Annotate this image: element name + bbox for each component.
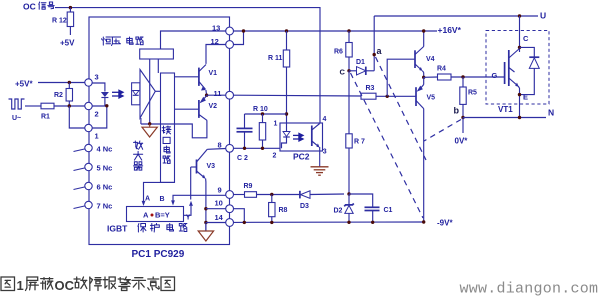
pin 11 label: [214, 89, 222, 98]
dashed fault path b down-left: [424, 120, 461, 142]
PC2 pin number 1: [274, 121, 278, 128]
junction -9V node: [422, 220, 425, 223]
diode D3: [300, 191, 344, 210]
svg-text:R4: R4: [437, 66, 446, 73]
junction R8 top: [270, 193, 273, 196]
wire pin12 tie-up: [234, 31, 244, 45]
wire pin9 net to input B: [160, 195, 226, 205]
pin 14 label: [215, 213, 224, 222]
dashed fault path C to -9V: [351, 73, 424, 218]
PC2 pin number 2: [273, 153, 277, 160]
svg-text:1: 1: [274, 121, 278, 128]
label PC2: [293, 152, 310, 162]
svg-text:1: 1: [17, 278, 24, 293]
block constant-voltage circuit box (恒压电路): [140, 49, 174, 59]
svg-text:R 12: R 12: [52, 18, 67, 25]
svg-text:IGBT: IGBT: [107, 224, 128, 234]
svg-text:+16V*: +16V*: [438, 25, 462, 35]
svg-text:6 Nc: 6 Nc: [97, 183, 113, 192]
junction R8 bottom: [270, 221, 273, 224]
svg-text:R9: R9: [244, 183, 253, 190]
svg-text:PC2: PC2: [293, 152, 310, 162]
junction +5V*/R2: [68, 81, 71, 84]
resistor R9: [234, 183, 257, 197]
IGBT gate label G: [492, 71, 498, 80]
wire R11 bottom feed to PC2 pin1: [286, 114, 288, 123]
svg-text:V5: V5: [427, 95, 436, 102]
junction R1/R2/pin1 branch: [68, 104, 71, 107]
power label +16V*: [438, 25, 462, 35]
junction amp output node: [148, 122, 151, 125]
zener diode D2: [334, 194, 354, 222]
junction R5 top: [461, 75, 464, 78]
wire D3 to C1 corner: [349, 194, 373, 207]
wire pin12 to V1 collector: [206, 45, 226, 64]
wire collector drop from U rail: [519, 16, 521, 52]
svg-text:D3: D3: [300, 203, 309, 210]
photodiode box: [132, 83, 140, 105]
wire R3 to V5 base: [376, 95, 416, 97]
wire node-a drop (U rail to D1): [373, 16, 375, 71]
svg-text:Y: Y: [186, 215, 191, 222]
pin 8 label: [218, 141, 222, 150]
IGBT collector label C: [523, 34, 529, 43]
net label OC signal (OC信号): [23, 2, 54, 12]
wire emitter junction to pin11: [207, 94, 226, 96]
svg-text:V3: V3: [207, 163, 216, 170]
IC PC1 PC929 outline box: [89, 17, 230, 245]
freewheel diode across VT1: [520, 47, 540, 94]
wire pin8 net (V3 collector to PC2 pin2): [234, 147, 280, 149]
svg-text:R3: R3: [366, 85, 375, 92]
wire logic output Y up-arrow: [184, 201, 193, 222]
svg-text:R2: R2: [54, 92, 63, 99]
svg-text:V2: V2: [209, 103, 218, 110]
svg-text:3: 3: [323, 149, 327, 156]
svg-text:G: G: [492, 71, 498, 80]
ground symbol (hollow triangle) PC1 common: [198, 223, 213, 242]
svg-text:C: C: [340, 68, 346, 77]
svg-text:R1: R1: [41, 114, 50, 121]
node b label: [454, 106, 460, 116]
svg-text:E: E: [523, 93, 528, 102]
svg-text:3: 3: [95, 73, 99, 82]
svg-text:1: 1: [95, 132, 99, 141]
svg-text:B: B: [160, 196, 165, 203]
label interface circuit (接口电路): [162, 126, 171, 163]
junction pin12 tie: [242, 29, 245, 32]
wire -9V rail: [234, 221, 424, 223]
wire node b to N: [463, 117, 546, 119]
IGBT emitter label E: [523, 93, 528, 102]
op-amp U (amplifier triangle): [140, 70, 155, 119]
svg-text:+5V*: +5V*: [15, 80, 33, 89]
junction R10 top: [261, 112, 264, 115]
resistor R11: [268, 31, 290, 114]
pin 1 label: [95, 132, 99, 141]
svg-text:13: 13: [212, 24, 220, 33]
wire V3 emitter to ground rail: [205, 182, 207, 231]
svg-text:4: 4: [323, 116, 327, 123]
wire +5V* to pin3: [38, 82, 85, 84]
junction node b: [461, 116, 464, 119]
junction R3/base rail: [386, 95, 389, 98]
block logic gate A*B=Y box: [127, 207, 184, 222]
wire const-box to interface box: [157, 59, 159, 73]
junction R6 top: [347, 29, 350, 32]
wire +16V rail (pins13/12 to V4 collector): [234, 30, 438, 32]
capacitor C2: [237, 114, 253, 162]
junction ground line / pin14 tap: [204, 221, 207, 224]
pin 10 label: [215, 199, 223, 208]
junction LED cathode on pin2 net: [105, 104, 108, 107]
wire pin11 to R3: [234, 94, 362, 97]
PC1 internal LED (input opto diode): [92, 83, 109, 106]
svg-text:0V*: 0V*: [455, 137, 469, 146]
junction D2 bottom: [347, 221, 350, 224]
label VT1: [498, 105, 513, 114]
figure caption (图1 屏蔽OC故障报警示意图): [1, 277, 175, 293]
dashed fault path a down: [376, 57, 427, 160]
resistor R10: [253, 106, 268, 148]
junction node a: [373, 53, 376, 56]
resistor R7: [346, 71, 365, 194]
junction node C: [347, 69, 350, 72]
svg-text:U~: U~: [12, 115, 21, 122]
svg-text:U: U: [540, 11, 546, 21]
wire U-phase rail: [374, 15, 538, 17]
junction emitter/diode bottom: [518, 93, 521, 96]
svg-text:A: A: [143, 211, 149, 220]
svg-text:8: 8: [218, 141, 222, 150]
svg-text:C 2: C 2: [237, 155, 248, 162]
watermark www.diangon.com: [460, 281, 599, 298]
optocoupler PC2 box: [280, 123, 323, 151]
power label -9V*: [437, 219, 453, 228]
svg-text:b: b: [454, 106, 460, 116]
transistor V4 (NPN driver): [415, 31, 435, 77]
svg-text:OC: OC: [55, 278, 75, 293]
resistor R6: [334, 31, 352, 71]
junction +16V / V4 collector: [422, 29, 425, 32]
pin 2 label: [95, 110, 99, 119]
pulse source symbol U~: [9, 99, 25, 122]
IGBT VT1 symbol: [505, 49, 520, 118]
junction C1 bottom: [371, 221, 374, 224]
wire OC signal rail to PC2 pin4 drop: [55, 8, 320, 123]
diode D1: [349, 59, 374, 75]
resistor R12: [52, 8, 74, 35]
node a label: [377, 46, 383, 56]
ground symbol (hollow triangle) below amplifier: [142, 124, 157, 137]
label constant-voltage (恒压电路): [102, 37, 144, 46]
wire R4 to IGBT gate: [451, 76, 505, 78]
junction U rail / collector: [518, 14, 521, 17]
svg-text:R 11: R 11: [268, 55, 283, 62]
junction R11 top: [285, 29, 288, 32]
power label 0V*: [455, 137, 469, 146]
wire base rail up to V4 base: [387, 59, 415, 96]
wire V4 emitter / R4 node: [422, 76, 425, 79]
transistor V2 (PNP): [175, 95, 218, 120]
junction pin10 elbow: [243, 221, 246, 224]
junction PC2 pin1 node: [285, 112, 288, 115]
resistor R3: [361, 85, 376, 99]
svg-text:4 Nc: 4 Nc: [97, 145, 113, 154]
wire amp bottom to V2 collector zigzag: [141, 118, 207, 138]
PC2 light arrows: [293, 133, 303, 141]
power label +5V*: [15, 80, 33, 89]
wire pin13 to constant-voltage box: [161, 31, 226, 49]
resistor R8: [269, 195, 288, 223]
svg-text:2: 2: [95, 110, 99, 119]
label amplifier (放大器): [134, 141, 143, 170]
wire pin14 to ground line: [206, 222, 226, 224]
wire pin2-pin1 right bracket: [92, 106, 107, 128]
svg-text:14: 14: [215, 213, 224, 222]
wire pulse to R1: [25, 105, 41, 107]
label IGBT protection circuit (IGBT保护电路): [107, 224, 187, 234]
svg-text:R 10: R 10: [253, 106, 268, 113]
svg-text:10: 10: [215, 199, 223, 208]
transistor V5 (PNP driver): [416, 77, 435, 222]
resistor R5: [460, 77, 477, 118]
PC2 pin number 3: [323, 149, 327, 156]
svg-text:7 Nc: 7 Nc: [97, 202, 113, 211]
junction R10 bottom: [261, 147, 264, 150]
resistor R2: [54, 83, 73, 107]
junction emitter on N rail: [518, 116, 521, 119]
junction OC/R12: [69, 6, 72, 9]
wire R9 to D3: [257, 194, 301, 196]
svg-text:-9V*: -9V*: [437, 219, 453, 228]
power label +5V (below R12): [60, 39, 75, 48]
svg-text:PC1 PC929: PC1 PC929: [132, 249, 185, 260]
node C label: [340, 68, 346, 77]
wire amp apex to interface box: [155, 90, 160, 92]
PC2 LED: [282, 123, 291, 148]
svg-text:www.diangon.com: www.diangon.com: [460, 281, 599, 298]
svg-text:R 7: R 7: [354, 139, 365, 146]
svg-text:R8: R8: [279, 207, 288, 214]
wire V3 collector to pin8: [207, 148, 226, 151]
net label U: [540, 11, 546, 21]
wire 0V* stub: [462, 118, 464, 134]
PC2 pin number 4: [323, 116, 327, 123]
svg-text:V4: V4: [426, 56, 435, 63]
pins 1-7 circles on PC1 left edge: [74, 79, 113, 211]
wire pin2-pin1 left bracket: [69, 106, 85, 128]
svg-text:B=Y: B=Y: [155, 211, 170, 220]
pin 13 label: [212, 24, 220, 33]
svg-text:VT1: VT1: [498, 105, 513, 114]
svg-text:5 Nc: 5 Nc: [97, 164, 113, 173]
svg-text:A: A: [145, 196, 150, 203]
block interface circuit box (接口电路): [161, 73, 175, 182]
wire pin10 to ground line: [206, 208, 226, 210]
pin 12 label: [211, 37, 219, 46]
junction V3 emitter / pin10 tap: [204, 207, 207, 210]
junction collector/diode tap: [518, 46, 521, 49]
wire R1 to pin2: [54, 105, 85, 107]
svg-text:9: 9: [218, 186, 222, 195]
junction V1/V2 emitters at pin11: [205, 94, 208, 97]
svg-text:OC: OC: [23, 2, 36, 12]
svg-text:C: C: [523, 34, 529, 43]
svg-text:N: N: [548, 108, 554, 118]
svg-text:+5V: +5V: [60, 39, 75, 48]
svg-text:2: 2: [273, 153, 277, 160]
PC2 phototransistor: [312, 124, 320, 156]
svg-text:R5: R5: [468, 90, 477, 97]
ground symbol below PC2 (tapered bars): [311, 155, 329, 175]
pin 9 label: [218, 186, 222, 195]
transistor V3 (NPN, fault): [191, 149, 215, 182]
wire const-box to amp output node: [149, 59, 151, 124]
svg-text:11: 11: [214, 89, 222, 98]
svg-text:V1: V1: [209, 70, 218, 77]
wire cap C2 top rail: [245, 113, 287, 115]
wire pin10 elbow: [234, 209, 245, 223]
dashed enclosure around VT1: [486, 31, 549, 105]
pins 13,12,11,8,9,10,14 circles on PC1 right edge: [226, 27, 234, 226]
svg-text:D2: D2: [334, 208, 343, 215]
net label N: [548, 108, 554, 118]
wire V3 base feed from logic: [190, 167, 192, 200]
resistor R1: [41, 103, 54, 120]
resistor R4: [424, 66, 451, 81]
capacitor C1: [365, 207, 393, 222]
svg-text:D1: D1: [356, 59, 365, 66]
PC1 opto light arrows: [112, 90, 123, 98]
svg-text:12: 12: [211, 37, 219, 46]
svg-text:R6: R6: [334, 49, 343, 56]
svg-text:C1: C1: [384, 207, 393, 214]
junction C2 bottom: [243, 147, 246, 150]
transistor V1 (NPN): [175, 65, 218, 96]
wire input A to logic box: [142, 182, 175, 206]
junction D2 top: [347, 192, 350, 195]
pin 3 label: [95, 73, 99, 82]
IC name label PC1 PC929: [132, 249, 185, 260]
